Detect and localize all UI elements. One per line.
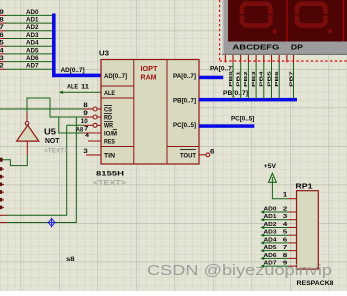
svg-text:CSDN @biyezuopinvip: CSDN @biyezuopinvip: [147, 263, 332, 279]
svg-text:NOT: NOT: [45, 138, 60, 145]
svg-text:11: 11: [81, 85, 90, 91]
svg-text:PB7: PB7: [288, 71, 294, 87]
svg-text:s8: s8: [66, 257, 75, 263]
svg-text:PB5: PB5: [266, 71, 272, 87]
svg-text:AD5: AD5: [26, 48, 39, 54]
svg-text:PB3: PB3: [251, 71, 257, 87]
svg-text:2: 2: [283, 206, 288, 212]
svg-text:ALE: ALE: [67, 85, 78, 91]
svg-text:AD2: AD2: [264, 222, 277, 228]
svg-text:TIN: TIN: [104, 154, 115, 160]
svg-text:DP: DP: [291, 43, 303, 52]
svg-text:RES: RES: [104, 139, 115, 145]
svg-text:PB[0..7]: PB[0..7]: [173, 98, 196, 104]
svg-text:U5: U5: [44, 126, 56, 136]
svg-text:PB4: PB4: [259, 71, 265, 87]
svg-text:RAM: RAM: [141, 73, 157, 82]
svg-text:PB[0..7]: PB[0..7]: [223, 91, 248, 97]
svg-text:<TEXT>: <TEXT>: [44, 148, 68, 155]
svg-text:6: 6: [283, 237, 288, 243]
svg-text:5: 5: [283, 230, 288, 236]
svg-text:10: 10: [81, 119, 89, 125]
svg-text:AD3: AD3: [264, 230, 277, 236]
svg-text:AD3: AD3: [26, 33, 39, 39]
svg-text:AD7: AD7: [26, 64, 39, 70]
svg-text:PB6: PB6: [274, 71, 280, 87]
svg-text:7: 7: [283, 245, 288, 251]
svg-text:AD6: AD6: [26, 56, 39, 62]
svg-text:AD1: AD1: [26, 18, 39, 24]
svg-text:ALE: ALE: [104, 91, 115, 97]
svg-text:ABCDEFG: ABCDEFG: [232, 43, 279, 52]
svg-text:PC[0..5]: PC[0..5]: [173, 123, 196, 129]
svg-text:8: 8: [283, 253, 288, 259]
svg-text:AD1: AD1: [264, 214, 277, 220]
svg-text:4: 4: [85, 133, 89, 139]
svg-text:3: 3: [283, 214, 288, 220]
svg-text:TOUT: TOUT: [180, 154, 196, 160]
svg-text:AD0: AD0: [264, 206, 277, 212]
svg-text:PB2: PB2: [243, 71, 249, 87]
svg-text:8155H: 8155H: [96, 171, 124, 178]
svg-text:<TEXT>: <TEXT>: [93, 180, 126, 187]
svg-text:AD[0..7]: AD[0..7]: [104, 74, 127, 80]
svg-text:RP1: RP1: [295, 181, 312, 190]
svg-text:AD4: AD4: [264, 237, 278, 243]
svg-text:CS: CS: [104, 107, 112, 113]
svg-text:AD2: AD2: [26, 25, 39, 31]
svg-text:PB1: PB1: [236, 71, 242, 87]
svg-text:AD[0..7]: AD[0..7]: [61, 68, 85, 74]
svg-text:U3: U3: [99, 50, 109, 57]
svg-text:WR: WR: [104, 124, 114, 130]
svg-text:IO/M: IO/M: [104, 131, 117, 137]
svg-text:+5V: +5V: [264, 163, 277, 170]
svg-text:PA[0..7]: PA[0..7]: [173, 74, 196, 80]
svg-text:RD: RD: [104, 115, 113, 121]
svg-text:PB0: PB0: [228, 71, 234, 87]
svg-text:A8: A8: [76, 127, 84, 133]
svg-text:AD6: AD6: [264, 253, 277, 259]
svg-text:RESPACK8: RESPACK8: [297, 281, 335, 287]
svg-text:AD4: AD4: [26, 41, 39, 47]
svg-text:AD5: AD5: [264, 245, 277, 251]
svg-text:AD0: AD0: [26, 10, 39, 16]
svg-text:PC[0..5]: PC[0..5]: [231, 117, 254, 123]
